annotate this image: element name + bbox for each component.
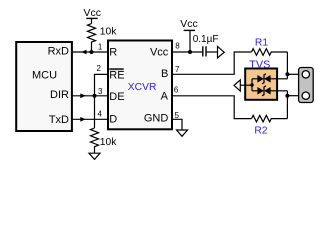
resistor R2	[252, 115, 288, 122]
junction dot RxD/pullup	[90, 50, 94, 54]
svg-text:DIR: DIR	[50, 89, 69, 101]
svg-text:R1: R1	[255, 37, 268, 48]
svg-text:RxD: RxD	[48, 46, 69, 58]
resistor 10k pull-up	[88, 24, 96, 52]
junction dot RE/DIR/pulldown	[93, 94, 97, 98]
wire TxD (MCU TxD to XCVR D, crosses pulldown without joint)	[71, 118, 109, 120]
wire Vcc pin 8	[172, 51, 203, 53]
svg-text:TVS: TVS	[249, 59, 270, 71]
arrow on DIR wire (pointing to XCVR)	[80, 93, 85, 98]
node A vertical to connector/TVS	[286, 91, 288, 119]
svg-text:Vcc: Vcc	[84, 7, 102, 19]
svg-text:XCVR: XCVR	[128, 82, 157, 93]
svg-text:B: B	[161, 68, 168, 80]
wire TVS lower to node A	[277, 90, 287, 92]
svg-text:1: 1	[98, 42, 103, 51]
wire DIR (MCU DIR to XCVR DE)	[71, 95, 109, 97]
XCVR U2 block	[108, 41, 172, 130]
Vcc symbol (top left)	[84, 7, 102, 24]
capacitor C1 0.1uF	[203, 46, 218, 56]
wire TVS common to ground	[240, 84, 252, 86]
wire DE node down to pull-down	[94, 96, 96, 128]
wire node B to connector pin 1	[287, 73, 300, 75]
TVS diode upper (bidirectional)	[252, 74, 277, 84]
svg-text:10k: 10k	[100, 27, 117, 38]
arrow on RxD wire (pointing to MCU)	[81, 50, 86, 55]
svg-text:10k: 10k	[100, 137, 117, 148]
svg-text:0.1µF: 0.1µF	[193, 34, 219, 45]
svg-text:2: 2	[97, 64, 102, 73]
svg-text:D: D	[109, 113, 117, 125]
wire B (pin 7 to R1)	[172, 52, 252, 74]
MCU U1 block	[16, 42, 72, 131]
svg-text:5: 5	[175, 111, 180, 120]
junction dot node A	[285, 94, 289, 98]
svg-text:R: R	[109, 47, 117, 59]
resistor R1	[252, 49, 288, 56]
junction dot Vcc rail	[188, 50, 192, 54]
resistor 10k pull-down	[91, 128, 99, 153]
wire GND pin 5	[172, 119, 182, 130]
ground below pull-down	[89, 153, 100, 159]
wire RxD (MCU RxD to XCVR R)	[71, 51, 109, 53]
svg-text:GND: GND	[144, 113, 169, 125]
connector J1	[299, 68, 314, 103]
svg-text:7: 7	[175, 65, 180, 74]
wire A (pin 6 to R2)	[172, 96, 252, 119]
svg-text:Vcc: Vcc	[150, 47, 169, 59]
svg-text:R2: R2	[254, 125, 267, 136]
svg-text:6: 6	[174, 86, 179, 95]
TVS common bar	[251, 79, 253, 91]
svg-text:4: 4	[97, 109, 102, 118]
svg-text:A: A	[161, 90, 169, 102]
svg-text:8: 8	[175, 41, 180, 50]
arrow on TxD wire (pointing to XCVR)	[80, 117, 85, 122]
svg-text:3: 3	[98, 87, 103, 96]
svg-text:MCU: MCU	[32, 69, 57, 81]
svg-text:RE: RE	[109, 70, 124, 82]
junction dot TVS common	[250, 83, 254, 87]
TVS box	[245, 69, 277, 100]
wire RE stub to DE node	[95, 74, 109, 95]
ground right of capacitor (right-pointing)	[218, 46, 225, 58]
junction dot node B	[285, 72, 289, 76]
node B vertical to connector/TVS	[286, 52, 288, 79]
wire TVS upper to node B	[277, 78, 287, 80]
svg-text:Vcc: Vcc	[180, 18, 198, 30]
pin label RE (active low)	[109, 68, 124, 82]
wire node A to connector pin 2	[287, 95, 300, 97]
ground left of TVS (left-pointing)	[234, 80, 240, 91]
svg-text:DE: DE	[109, 91, 124, 103]
Vcc symbol (top right)	[180, 18, 198, 52]
ground at GND pin	[177, 130, 188, 136]
TVS diode lower (bidirectional)	[252, 86, 277, 96]
svg-text:TxD: TxD	[49, 114, 69, 126]
